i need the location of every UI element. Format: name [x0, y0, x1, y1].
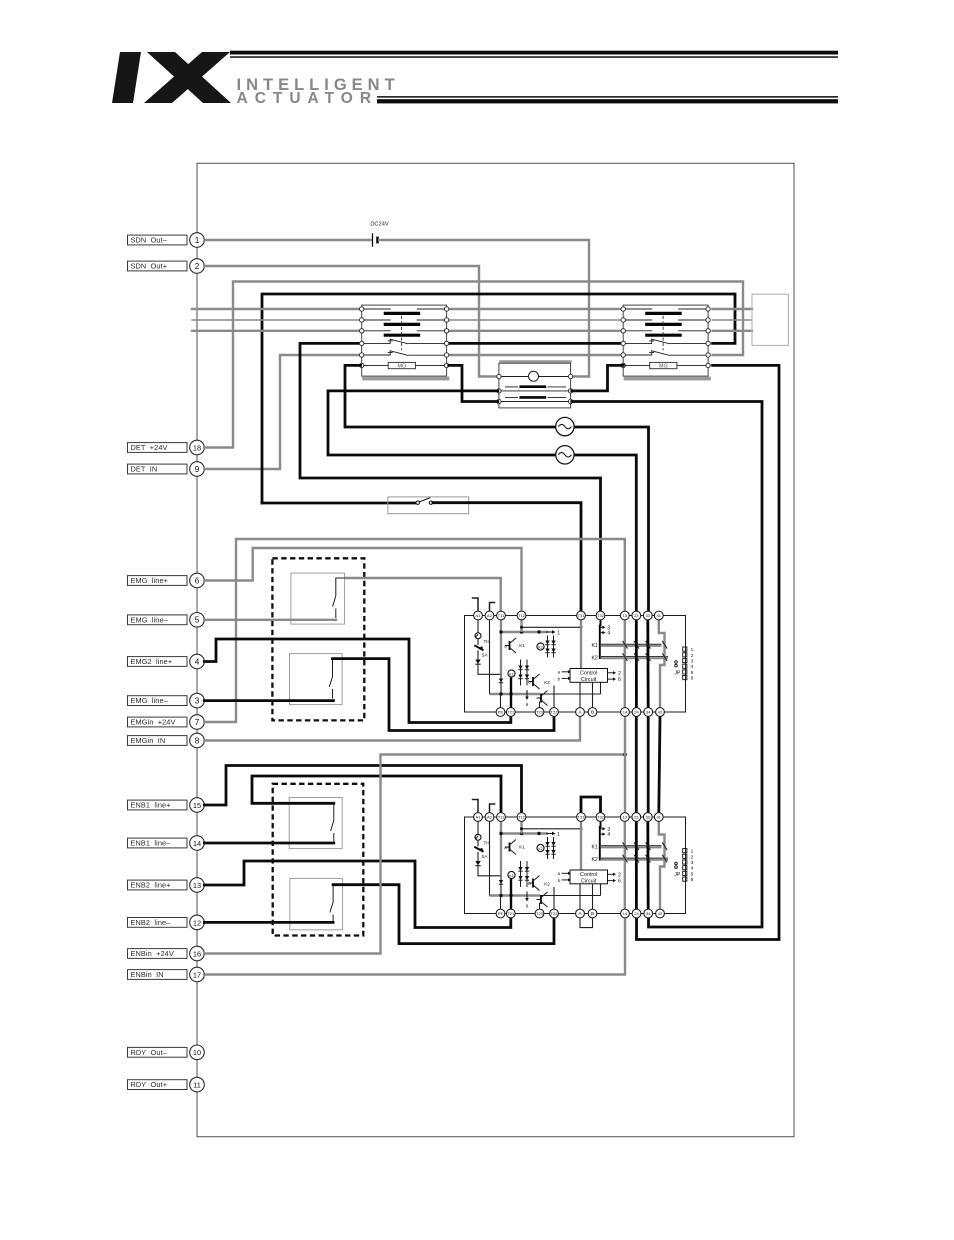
relay U2 arrow contact 4	[600, 833, 603, 835]
svg-text:3: 3	[195, 697, 200, 706]
wire SDN Out- from battery to breaker row1 right	[379, 240, 589, 377]
svg-text:ENBin IN: ENBin IN	[131, 970, 164, 979]
relay U1 arrow contact 4	[600, 632, 603, 634]
svg-text:13: 13	[623, 815, 628, 820]
relay U2 contact blade K2 row at x636.3	[634, 855, 639, 863]
relay U2 terminal T22	[550, 909, 559, 918]
I/O label box ENB2 line- (pin 12)	[128, 918, 188, 928]
I/O label box EMG line+ (pin 6)	[128, 576, 188, 586]
relay U2 internal gray bus horizontal	[501, 832, 548, 834]
breaker F1 row1 wire and lamp circle	[501, 376, 529, 378]
relay U2 terminal 13	[620, 813, 629, 822]
svg-text:23: 23	[634, 815, 639, 820]
svg-text:K1: K1	[509, 874, 513, 878]
svg-text:EMGin +24V: EMGin +24V	[131, 718, 176, 727]
relay U1 terminal A1	[474, 611, 483, 620]
I/O label box ENB1 line- (pin 14)	[128, 838, 188, 848]
relay U2 arrow input b	[562, 879, 569, 881]
relay U2 transistor Q1	[505, 846, 510, 848]
wire SDN Out+ from pin 2 to breaker row1 left	[204, 266, 498, 377]
svg-text:K2: K2	[544, 680, 550, 685]
wire aux NO MG1 right to MG2 left	[448, 342, 624, 345]
svg-text:4: 4	[195, 657, 200, 666]
I/O label box EMGin +24V (pin 7)	[128, 717, 188, 727]
svg-text:T32: T32	[597, 815, 605, 820]
relay U2 T23 stub	[539, 903, 541, 910]
logo bottom thick rule	[377, 99, 838, 103]
reset switch S1 box	[388, 497, 469, 514]
relay U2 internal wire T31 column	[580, 821, 582, 870]
svg-text:6: 6	[691, 676, 694, 682]
relay U2 terminal PE	[496, 909, 505, 918]
svg-text:SDN Out–: SDN Out–	[131, 236, 168, 245]
relay U1 contact blade K2 row at x636.3	[634, 653, 639, 661]
relay U2 internal wire A1 to T11 column	[478, 866, 501, 876]
wire reset switch to relay U1 terminal T31	[433, 503, 581, 611]
relay U2 arrow output 1	[546, 833, 552, 835]
relay U1 terminal A	[576, 708, 585, 717]
relay U1 terminal T31	[577, 611, 586, 620]
wire DET IN pin 9 to MG1 aux contact left	[204, 355, 360, 469]
contactor MG2 left terminal row3	[621, 329, 625, 333]
relay U1 internal wire T12 column	[520, 620, 522, 633]
svg-text:13: 13	[623, 613, 628, 618]
relay U1 arrow input a	[562, 671, 569, 673]
AC source symbol lower	[556, 446, 574, 464]
contactor MG2 coil box MG	[650, 362, 677, 368]
svg-text:2: 2	[691, 854, 694, 860]
svg-text:41: 41	[657, 613, 662, 618]
relay U2 terminal T21	[506, 909, 515, 918]
relay U2 terminal T32	[596, 813, 605, 822]
relay U1 contact blade K2 row at x624.8	[623, 653, 628, 661]
relay U2 contact blade K1 row at x647.8	[646, 842, 651, 850]
relay U1 transistor Q3	[537, 697, 542, 699]
svg-text:2: 2	[618, 671, 621, 677]
svg-text:PE: PE	[498, 710, 504, 715]
relay U1 thermal switch SA blade	[477, 639, 479, 645]
AC source symbol upper	[556, 417, 574, 435]
pin circle 7 (EMGin +24V)	[190, 715, 205, 730]
relay U2 transistor Q3	[537, 899, 542, 901]
contactor MG2 right terminal row3	[706, 329, 710, 333]
svg-text:T31: T31	[578, 815, 586, 820]
I/O label box EMG line- (pin 3)	[128, 696, 188, 706]
contactor MG1 moving contact bar row2	[384, 323, 421, 326]
relay U2 terminal A2	[485, 813, 494, 822]
pin circle 17 (ENBin IN)	[190, 967, 205, 982]
contactor MG2 shadow bar	[624, 377, 711, 381]
wire EMGin IN pin 8 to relay U1 terminal A	[204, 717, 580, 741]
relay U1 T21 coil feed	[510, 678, 512, 709]
svg-text:PE: PE	[498, 911, 504, 916]
relay U2 terminal 33	[643, 813, 652, 822]
breaker F1 row3 contact	[501, 401, 569, 403]
relay U1 terminal 34	[644, 708, 653, 717]
relay U2 jumper pins	[675, 862, 678, 865]
relay U1 terminal 33	[643, 611, 652, 620]
contactor MG2 fixed contacts row1	[625, 308, 652, 310]
logo IX letter X stroke NE-SW	[144, 52, 230, 103]
relay U2 diode on T11 lower column	[500, 878, 502, 890]
wire EMGin +24V pin 7 to relay U1 terminal 13	[204, 539, 625, 722]
wire EMG switch 2 top to relay U1 terminal T22	[333, 659, 555, 731]
svg-text:B: B	[591, 911, 594, 916]
contactor MG2 fixed contacts row3	[625, 330, 652, 332]
contactor MG1 moving contact bar row1	[384, 312, 421, 315]
svg-text:14: 14	[193, 839, 201, 848]
svg-text:13: 13	[193, 881, 201, 890]
logo IX letter X stroke NW-SE	[147, 52, 231, 103]
relay U2 output column 41-42 with offset bracket	[659, 821, 665, 910]
svg-text:3: 3	[691, 659, 694, 665]
svg-text:T21: T21	[507, 710, 515, 715]
relay U1 diode pair cluster 1	[547, 636, 549, 658]
contactor MG2 body	[623, 305, 708, 376]
relay U1 terminal 41	[654, 611, 663, 620]
relay U2 contact blade K1 row at x636.3	[634, 842, 639, 850]
wire MG1 coil left via AC source to relay U1 terminal 33	[345, 365, 649, 611]
relay U1 terminal T12	[517, 611, 526, 620]
safety relay unit U2 body outline	[465, 817, 686, 914]
relay U1 diode on T11 lower column	[500, 677, 502, 689]
breaker F1 left terminal y376.5	[497, 374, 501, 378]
contactor MG2 aux contact row at y355.0	[625, 354, 652, 356]
contactor MG2 left terminal row4	[621, 341, 625, 345]
wire phase L2 between contactors	[448, 319, 624, 321]
svg-text:T23: T23	[536, 710, 544, 715]
svg-text:SA: SA	[481, 854, 488, 859]
wire phase L2 to motor box	[713, 319, 752, 321]
logo IX letter I	[112, 52, 141, 103]
contactor MG1 shadow bar	[362, 377, 449, 381]
EMG switch 1 contact symbol	[335, 578, 337, 596]
svg-text:34: 34	[646, 911, 651, 916]
relay U2 wire control box to A	[579, 884, 581, 910]
contactor MG1 right terminal row1	[444, 307, 448, 311]
ENB switch 1 box	[289, 798, 342, 849]
relay U1 thermal sensor TH circle	[475, 633, 481, 639]
wire phase L3 to motor box	[713, 330, 752, 332]
relay U1 internal gray bus horizontal	[501, 631, 548, 633]
relay U1 contact blade K2 row at x647.8	[646, 653, 651, 661]
svg-text:EMG line–: EMG line–	[131, 615, 169, 624]
pin circle 2 (SDN Out+)	[190, 259, 205, 274]
pin circle 14 (ENB1 line-)	[190, 836, 205, 851]
wire DET +24V pin 18 to MG2 aux contact right	[204, 282, 743, 448]
svg-text:T31: T31	[578, 613, 586, 618]
relay U1 contact blade K1 row at x664.5	[662, 641, 667, 649]
relay U2 jumper block JP	[683, 849, 687, 853]
wire MG1 aux NO left to relay U1 terminal T32	[300, 343, 601, 611]
I/O label box SDN Out- (pin 1)	[128, 235, 188, 245]
contactor MG2 right terminal row1	[706, 307, 710, 311]
wire breaker row2 left via AC source to relay U1 terminal 23	[328, 391, 636, 611]
relay U1 control circuit box	[570, 669, 608, 683]
relay U1 contact blade K1 row at x647.8	[646, 641, 651, 649]
svg-text:6: 6	[526, 904, 529, 909]
wire ENBin IN pin 17 to relay U2 terminal 14	[204, 919, 625, 975]
relay U2 internal wire A2 column	[489, 821, 491, 896]
svg-text:T12: T12	[518, 815, 526, 820]
reset switch S1 blade	[419, 498, 430, 502]
wire feedback loop pin-switch to MG2 aux NO right	[262, 294, 735, 503]
pin circle 12 (ENB2 line-)	[190, 915, 205, 930]
wire SDN Out- from pin 1 to battery	[204, 239, 370, 241]
svg-text:JP: JP	[674, 872, 681, 878]
breaker F1 left terminal y390.9	[497, 389, 501, 393]
svg-text:4: 4	[607, 631, 610, 637]
svg-text:6: 6	[526, 702, 529, 707]
wire relay U2 terminals T31-T32 jumper	[581, 797, 601, 812]
relay U2 terminal T23	[535, 909, 544, 918]
relay U1 terminal T21	[506, 708, 515, 717]
relay U1 PE stub	[500, 694, 502, 708]
svg-text:T11: T11	[498, 613, 505, 618]
relay U2 PE stub	[500, 896, 502, 910]
relay U2 arrow output 5	[608, 880, 614, 882]
relay U1 terminal B	[588, 708, 597, 717]
svg-text:K1: K1	[591, 844, 597, 850]
schematic frame border	[197, 163, 794, 1136]
svg-text:RDY Out+: RDY Out+	[131, 1080, 168, 1089]
svg-text:Control: Control	[580, 872, 597, 878]
relay U1 terminal 23	[632, 611, 641, 620]
logo top thick rule	[230, 51, 838, 55]
wire relay U2 terminal T11 to ENB switch 1 top	[252, 776, 501, 812]
relay U2 terminal 14	[621, 909, 630, 918]
contactor MG1 aux contact row at y343.4	[364, 342, 391, 344]
pin circle 11 (RDY Out+)	[190, 1077, 205, 1092]
svg-text:23: 23	[634, 613, 639, 618]
breaker F1 right terminal y401.5	[568, 399, 572, 403]
pin circle 18 (DET +24V)	[190, 440, 205, 455]
svg-text:42: 42	[658, 911, 663, 916]
relay U2 supply prong A1	[473, 800, 479, 814]
wire ENB2 line- pin 12 to ENB switch 2 blade bottom	[204, 921, 333, 924]
ENB switch 2 box	[290, 878, 343, 930]
contactor MG1 left terminal row4	[360, 341, 364, 345]
svg-text:6: 6	[618, 677, 621, 683]
relay U1 transistor Q2	[529, 681, 534, 683]
svg-text:K2: K2	[591, 655, 597, 661]
svg-text:ENB1 line–: ENB1 line–	[131, 839, 172, 848]
svg-text:SA: SA	[481, 653, 488, 658]
svg-text:10: 10	[193, 1048, 201, 1057]
svg-text:5: 5	[195, 616, 200, 625]
contactor MG2 right terminal row4	[706, 341, 710, 345]
svg-text:TH: TH	[483, 841, 489, 846]
contactor MG1 right terminal row2	[444, 318, 448, 322]
svg-text:8: 8	[195, 736, 200, 745]
contactor MG1 left terminal row1	[360, 307, 364, 311]
wire breaker row3 right to relay U2 terminal 34	[572, 402, 762, 928]
relay U1 wire control box to B	[592, 682, 594, 708]
wire MG2 coil right to relay U2 terminal 24	[637, 365, 780, 939]
svg-text:6: 6	[691, 877, 694, 883]
pin circle 13 (ENB2 line+)	[190, 878, 205, 893]
contactor MG2 moving contact bar row3	[645, 334, 682, 337]
svg-text:14: 14	[623, 710, 628, 715]
pin circle 4 (EMG2 line+)	[190, 654, 205, 669]
I/O label box ENBin IN (pin 17)	[128, 970, 188, 980]
breaker F1 right terminal y376.5	[568, 374, 572, 378]
relay U2 output column 33-34	[646, 821, 649, 910]
relay U2 terminal T12	[517, 813, 526, 822]
relay U2 T32 actuator column	[599, 821, 602, 860]
svg-text:A1: A1	[476, 815, 482, 820]
relay U2 arrow contact 3	[600, 828, 603, 830]
contactor MG2 coil wire row6	[625, 364, 650, 366]
svg-text:MG: MG	[659, 364, 668, 370]
svg-text:ACTUATOR: ACTUATOR	[237, 90, 379, 107]
relay U2 contact blade K1 row at x664.5	[662, 842, 667, 850]
relay U2 diode D1	[477, 852, 479, 861]
reset switch S1 left contact	[416, 501, 419, 504]
breaker F1 body	[499, 363, 571, 408]
contactor MG2 left terminal row1	[621, 307, 625, 311]
relay U1 contact blade K2 row at x664.5	[662, 653, 667, 661]
relay U1 T23 stub	[539, 702, 541, 709]
svg-text:41: 41	[657, 815, 662, 820]
svg-text:18: 18	[193, 443, 201, 452]
svg-text:K1: K1	[519, 845, 525, 850]
svg-text:3: 3	[691, 860, 694, 866]
EMG switch 2 contact symbol	[332, 659, 334, 677]
relay U1 terminal 14	[621, 708, 630, 717]
svg-text:T22: T22	[551, 911, 559, 916]
svg-text:DET +24V: DET +24V	[131, 443, 168, 452]
I/O label box EMGin IN (pin 8)	[128, 736, 188, 746]
wire phase L1 between contactors	[448, 308, 624, 310]
svg-text:2: 2	[618, 872, 621, 878]
I/O label box ENB2 line+ (pin 13)	[128, 880, 188, 890]
pin circle 6 (EMG line+)	[190, 573, 205, 588]
svg-text:5: 5	[691, 670, 694, 676]
relay U1 contact blade K1 row at x636.3	[634, 641, 639, 649]
relay U1 contact blade K1 row at x624.8	[623, 641, 628, 649]
svg-text:33: 33	[646, 815, 651, 820]
wire phase L3 left segment	[192, 330, 361, 332]
breaker F1 left terminal y401.5	[497, 399, 501, 403]
contactor MG1 coil box MG	[388, 362, 415, 368]
contactor MG1 fixed contacts row3	[364, 330, 391, 332]
pin circle 1 (SDN Out-)	[190, 233, 205, 248]
pin circle 3 (EMG line-)	[190, 693, 205, 708]
contactor MG1 right terminal row5	[444, 353, 448, 357]
contactor MG2 aux contact row at y343.4	[625, 342, 652, 344]
svg-text:Control: Control	[580, 671, 597, 677]
wire phase L2 left segment	[192, 319, 361, 321]
svg-text:4: 4	[691, 664, 694, 670]
battery DC24V positive plate	[372, 233, 374, 247]
EMG external dashed enclosure	[272, 558, 364, 720]
relay U2 arrow output 6 down	[526, 892, 528, 899]
I/O label box DET +24V (pin 18)	[128, 443, 188, 453]
relay U2 control circuit box	[570, 870, 608, 884]
relay U1 transistor Q1	[505, 645, 510, 647]
svg-text:12: 12	[193, 918, 201, 927]
logo top thin rule	[230, 56, 838, 58]
svg-text:K2: K2	[538, 645, 542, 649]
I/O label box ENBin +24V (pin 16)	[128, 949, 188, 959]
wire phase L1 left segment	[192, 308, 361, 310]
contactor MG2 moving contact bar row2	[645, 323, 682, 326]
pin circle 10 (RDY Out-)	[190, 1045, 205, 1060]
svg-text:6: 6	[618, 879, 621, 885]
relay U2 terminal 41	[654, 813, 663, 822]
wire ENB1 line+ pin 15 to relay U2 terminal T12	[204, 766, 521, 813]
relay U1 arrow output 6 down	[526, 690, 528, 697]
pin circle 9 (DET IN)	[190, 462, 205, 477]
svg-text:A2: A2	[487, 613, 493, 618]
svg-text:4: 4	[691, 866, 694, 872]
safety relay unit U1 body outline	[465, 616, 686, 713]
relay U2 arrow input a	[562, 872, 569, 874]
ENB switch 1 contact symbol	[333, 803, 335, 820]
motor connection box	[752, 294, 788, 345]
relay U2 internal gray bus T11 column	[500, 821, 502, 876]
I/O label box SDN Out+ (pin 2)	[128, 261, 188, 271]
contactor MG1 coil wire row6	[364, 364, 389, 366]
svg-text:1: 1	[195, 236, 200, 245]
relay U1 internal gray bus T11 column	[500, 620, 502, 675]
relay U2 terminal 34	[644, 909, 653, 918]
relay U1 terminal 42	[656, 708, 665, 717]
contactor MG1 fixed contacts row2	[364, 319, 391, 321]
wire relay U1 terminal 14 to relay U2 terminal 13	[624, 717, 626, 812]
wire EMG2 line+ pin 4 to relay U1 terminal T21	[204, 639, 511, 723]
contactor MG2 right terminal row6	[706, 363, 710, 367]
relay U1 supply prong A2	[490, 603, 495, 612]
wire relay U1 terminal 24 to relay U2 terminal 23	[635, 717, 638, 812]
I/O label box RDY Out+ (pin 11)	[128, 1080, 188, 1090]
relay U1 arrow contact 3	[600, 626, 603, 628]
relay U2 internal wire T12 column	[520, 821, 522, 834]
svg-text:EMG2 line+: EMG2 line+	[131, 657, 173, 666]
relay U1 supply prong A1	[473, 598, 479, 612]
relay U1 wire control box to A	[579, 682, 581, 708]
battery DC24V negative plate	[376, 237, 379, 244]
relay U2 contact blade K2 row at x624.8	[623, 855, 628, 863]
relay U2 terminal B	[588, 909, 597, 918]
relay U1 terminal T11	[497, 611, 506, 620]
relay U2 supply prong A2	[490, 804, 495, 813]
relay U1 terminal T32	[596, 611, 605, 620]
logo bottom thin rule	[377, 96, 838, 98]
relay U1 arrow input b	[562, 677, 569, 679]
relay U2 diode pair cluster 1	[547, 837, 549, 859]
contactor MG1 left terminal row2	[360, 318, 364, 322]
relay U2 internal wire A1 column	[477, 821, 479, 834]
ENB switch 2 contact symbol	[332, 885, 334, 902]
contactor MG1 linkage dashed line	[401, 316, 403, 351]
breaker F1 right terminal y390.9	[568, 389, 572, 393]
relay U2 diode pair cluster 2	[520, 861, 522, 887]
contactor MG1 right terminal row4	[444, 341, 448, 345]
wire EMG line- pin 5 to EMG switch 1 blade bottom	[204, 619, 336, 621]
contactor MG2 linkage dashed line	[662, 316, 664, 351]
svg-text:ENB2 line+: ENB2 line+	[131, 881, 171, 890]
wire EMG switch 1 top stub	[336, 577, 346, 579]
relay U2 transistor Q2	[529, 882, 534, 884]
wire ENBin +24V pin 16 to safety chain junction	[204, 755, 625, 954]
relay U2 thermal sensor TH circle	[475, 834, 481, 840]
relay U2 terminal T11	[497, 813, 506, 822]
wire relay U1 terminal 42 to relay U2 terminal 41	[659, 717, 660, 812]
relay U1 terminal A2	[485, 611, 494, 620]
junction safety chain node	[623, 753, 627, 757]
